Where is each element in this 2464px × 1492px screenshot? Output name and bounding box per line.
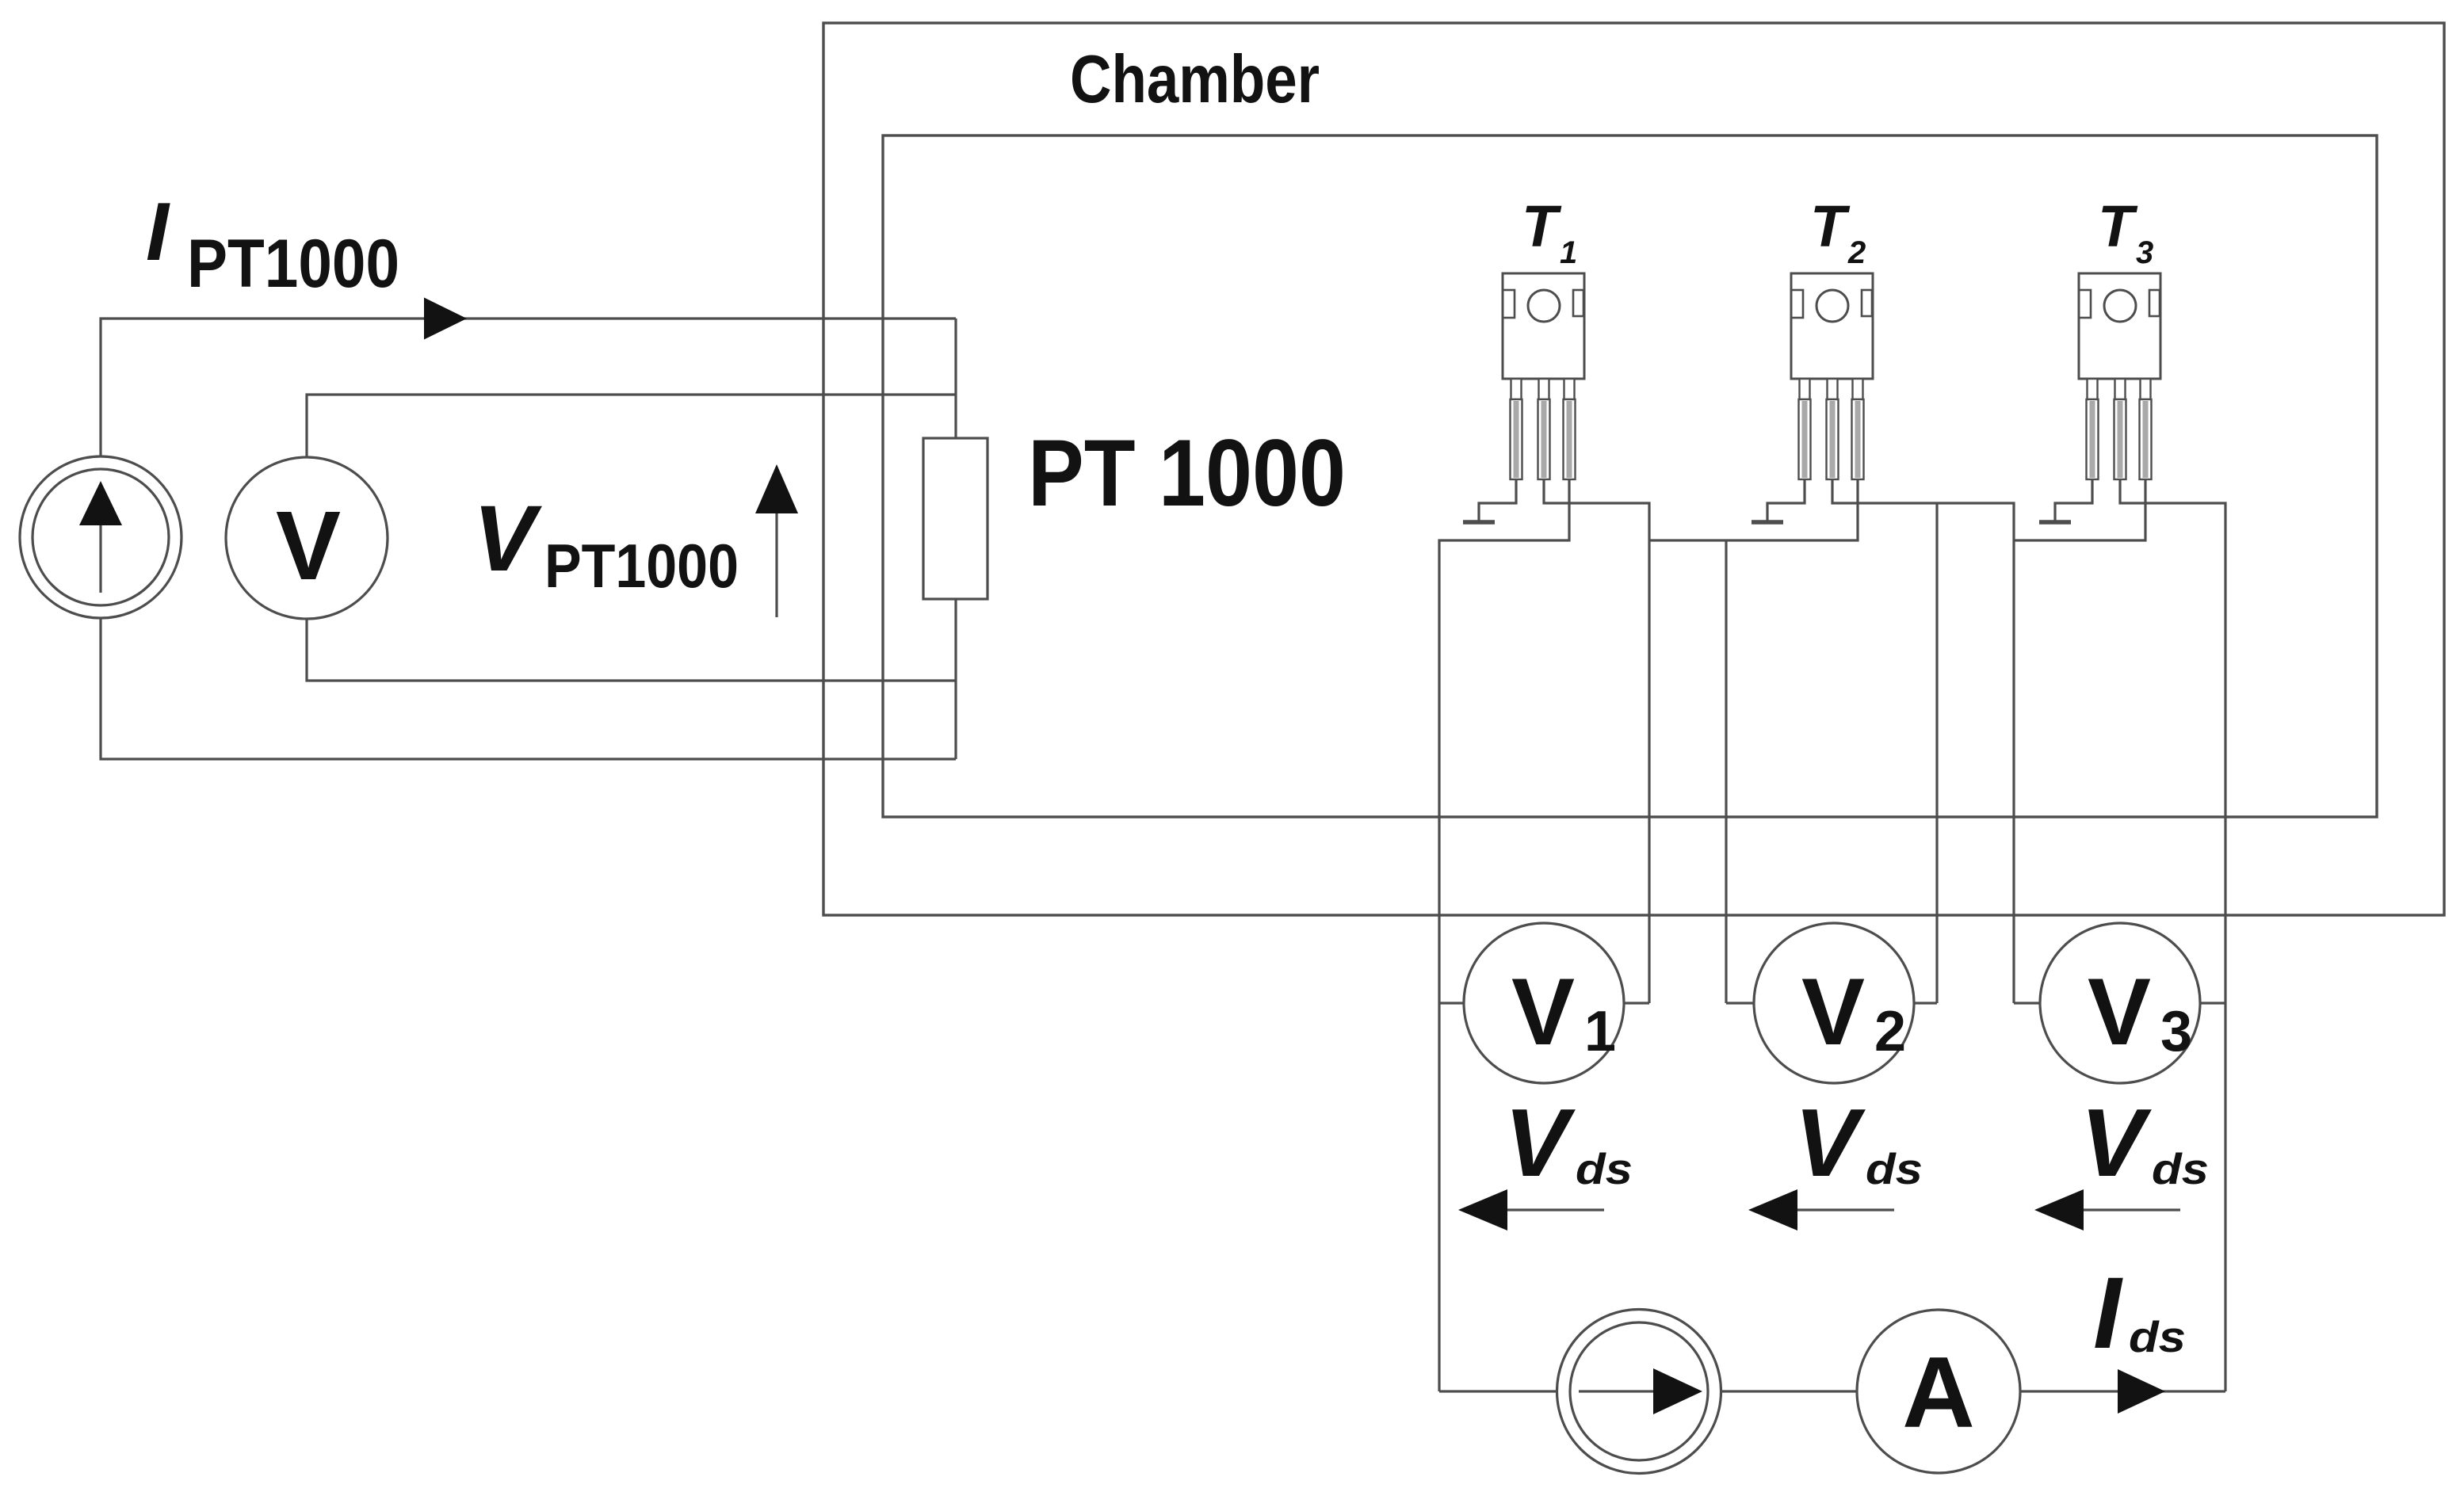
label T2: [1810, 193, 1866, 270]
arrow V_ds (1) pointing left: [1458, 1189, 1604, 1231]
ground symbol T1: [1463, 520, 1495, 525]
wire T1 gate lead to ground: [1479, 479, 1516, 521]
wire T1 drain lead down to V1 right: [1544, 479, 1649, 1003]
arrow inside CS1 (up): [79, 481, 122, 593]
wire T1 source lead down to V1 left / bottom loop: [1439, 479, 1569, 1391]
wire V3 right stub: [2200, 1002, 2225, 1004]
svg-text:PT1000: PT1000: [187, 226, 399, 302]
svg-text:3: 3: [2136, 235, 2153, 270]
label I_ds: [2093, 1257, 2186, 1370]
label I_PT1000: [146, 186, 399, 302]
svg-text:V: V: [2080, 1089, 2152, 1196]
wire V2 left stub: [1726, 1002, 1754, 1004]
wire ammeter to right riser: [2020, 1390, 2225, 1392]
wire V1 right stub: [1624, 1002, 1649, 1004]
transistor T1 (TO-220 package): [1503, 273, 1584, 479]
svg-text:V: V: [2088, 959, 2151, 1065]
wire PT1000 top pin: [954, 319, 957, 438]
wire V2 right stub: [1914, 1002, 1937, 1004]
svg-text:T: T: [1522, 193, 1562, 259]
wire bottom loop left segment: [1439, 1390, 1558, 1392]
wire V top sense to PT1000 top pin: [307, 395, 956, 457]
wire T2 drain lead across to T3 source node: [1832, 479, 2014, 1003]
arrow V_ds (2) pointing left: [1748, 1189, 1894, 1231]
svg-text:PT 1000: PT 1000: [1028, 420, 1346, 526]
resistor PT1000: [923, 438, 988, 599]
wire node T1drain-T2source down to V2 left: [1725, 540, 1727, 1003]
wire T2 gate lead to ground: [1767, 479, 1805, 521]
label V_PT1000: [473, 487, 739, 601]
wire T3 source lead to T2 drain node: [2014, 479, 2145, 540]
svg-text:PT1000: PT1000: [544, 531, 739, 601]
svg-text:2: 2: [1847, 235, 1866, 270]
wire T3 gate lead to ground: [2055, 479, 2092, 521]
wire V3 left stub: [2014, 1002, 2040, 1004]
transistor T3 (TO-220 package): [2079, 273, 2160, 479]
label V_ds (2): [1794, 1089, 1923, 1196]
svg-text:I: I: [2093, 1257, 2123, 1370]
wire PT1000 bottom pin: [954, 599, 957, 759]
wire V2 right tap: [1935, 503, 1938, 1003]
svg-text:3: 3: [2160, 1000, 2192, 1063]
chamber outer wall: [823, 23, 2444, 915]
svg-text:I: I: [146, 186, 170, 278]
arrowhead I_PT1000 (right): [424, 298, 467, 340]
voltmeter V1: [1464, 923, 1624, 1083]
svg-text:2: 2: [1874, 1000, 1906, 1063]
svg-text:V: V: [1794, 1089, 1866, 1196]
label T3: [2098, 193, 2153, 270]
voltmeter V2: [1754, 923, 1914, 1083]
wire CS1 top to PT1000 top pin: [101, 319, 956, 457]
arrowhead I_ds (right): [2118, 1369, 2165, 1414]
wire CS2 to ammeter: [1721, 1390, 1858, 1392]
ammeter A: [1857, 1310, 2020, 1473]
wire V bottom sense to PT1000 bottom pin: [307, 619, 956, 681]
wire T2 source lead to T1 drain node: [1649, 479, 1858, 540]
svg-text:Chamber: Chamber: [1070, 42, 1320, 117]
arrow V_ds (3) pointing left: [2034, 1189, 2180, 1231]
svg-text:V: V: [1801, 959, 1865, 1065]
svg-text:A: A: [1902, 1336, 1975, 1448]
ground symbol T2: [1752, 520, 1783, 525]
wire CS1 bottom return to PT1000 bottom pin: [101, 618, 956, 759]
voltmeter V3: [2040, 923, 2200, 1083]
arrow V_PT1000 (up): [755, 464, 798, 617]
transistor T2 (TO-220 package): [1791, 273, 1873, 479]
arrow inside CS2 (right): [1579, 1368, 1702, 1414]
voltmeter V (measures V_PT1000): [226, 457, 388, 619]
chamber inner wall: [883, 135, 2377, 817]
svg-text:1: 1: [1584, 1000, 1616, 1063]
svg-text:ds: ds: [1576, 1144, 1633, 1193]
wire V1 left stub: [1439, 1002, 1464, 1004]
current source CS1 (supplies I_PT1000): [20, 456, 181, 618]
svg-text:ds: ds: [2152, 1144, 2209, 1193]
svg-text:V: V: [276, 492, 341, 601]
svg-text:V: V: [1511, 959, 1575, 1065]
svg-text:ds: ds: [1866, 1144, 1923, 1193]
label V_ds (3): [2080, 1089, 2209, 1196]
svg-text:V: V: [1504, 1089, 1576, 1196]
ground symbol T3: [2039, 520, 2071, 525]
svg-text:1: 1: [1560, 235, 1577, 270]
current source CS2 (supplies I_ds): [1557, 1310, 1721, 1474]
svg-text:T: T: [1810, 193, 1851, 259]
svg-text:V: V: [473, 487, 542, 591]
svg-text:ds: ds: [2129, 1312, 2186, 1361]
wire T3 drain lead down to V3 right / bottom loop: [2120, 479, 2225, 1391]
svg-text:T: T: [2098, 193, 2138, 259]
label T1: [1522, 193, 1577, 270]
label V_ds (1): [1504, 1089, 1633, 1196]
